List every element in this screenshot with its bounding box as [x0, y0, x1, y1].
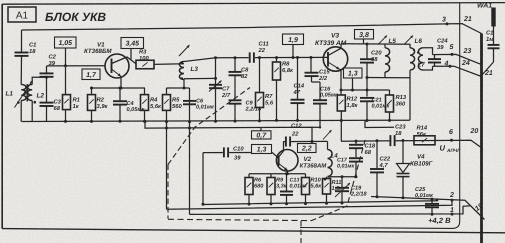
pin 4 label: [444, 61, 449, 68]
node R1 gnd dot: [64, 120, 67, 123]
label R4: [150, 98, 162, 110]
resistor R6: [245, 174, 253, 204]
node R13 gnd dot: [388, 119, 391, 122]
pin 6 label: [449, 129, 453, 136]
inductor L5: [385, 44, 390, 78]
label C11: [258, 41, 269, 54]
node C18 afc dot: [355, 140, 358, 143]
transistor V3 base lead: [324, 56, 329, 58]
transistor V2 collector lead: [279, 142, 284, 157]
label R8: [282, 61, 294, 74]
node R12 gnd dot: [340, 119, 343, 122]
resistor R5: [163, 88, 171, 209]
node V4 bottom dot: [402, 196, 405, 199]
capacitor C15: [305, 58, 321, 83]
contact 19 label: [474, 202, 485, 212]
capacitor C1 input: [15, 30, 29, 85]
antenna WA1 symbol: [491, 8, 495, 45]
capacitor C19 variable: [335, 177, 350, 203]
capacitor C7 trimmer: [209, 81, 222, 92]
wire pin4 line: [433, 66, 482, 76]
wire vertical C6 branch: [189, 88, 191, 214]
outer frame left border: [1, 4, 3, 229]
arrow L1 tuning: [15, 81, 33, 108]
inductor L2: [27, 84, 32, 121]
label C1 input: [29, 42, 36, 55]
capacitor C1 antenna: [482, 45, 500, 76]
wire pin1 line: [190, 206, 471, 215]
transistor V3 emitter lead: [328, 62, 341, 95]
wire top bus to pin 3: [22, 24, 482, 34]
resistor R2: [88, 88, 96, 121]
voltage box 3,8: [355, 30, 374, 40]
wire rail B stub right: [365, 121, 394, 128]
transistor V2 base lead: [272, 152, 279, 158]
capacitor C18: [349, 141, 363, 148]
pin 2 label: [449, 192, 454, 199]
pin 5 dot: [451, 53, 454, 56]
capacitor C16: [312, 82, 327, 127]
wire L3 bottom link: [167, 79, 185, 88]
transistor V1 emitter lead: [112, 69, 122, 88]
label R14: [417, 126, 428, 138]
wire 1,05 stub and R1 lead: [65, 48, 67, 95]
node C6 railB dot: [188, 120, 191, 129]
wire osc collector: [283, 140, 328, 142]
dot L6 polarity: [413, 49, 415, 51]
label V1: [84, 42, 112, 56]
label R11: [332, 180, 344, 192]
inductor L7: [418, 48, 432, 70]
node C7 top dot: [214, 56, 217, 59]
node rail1 to pin2 dot: [436, 198, 439, 201]
wire L2 top link: [32, 77, 46, 84]
node R12 top dot: [340, 89, 343, 92]
label C12: [291, 123, 302, 138]
resistor R10: [302, 174, 310, 204]
node C12 busB dot: [311, 140, 314, 143]
wire osc base: [203, 151, 272, 153]
node emitter dot: [120, 87, 123, 90]
outer frame top border: [2, 3, 505, 5]
label R9: [276, 178, 288, 190]
capacitor C24: [428, 55, 441, 67]
node C8 top dot: [234, 56, 237, 59]
voltage box 0,7: [252, 131, 272, 140]
cable bundle line: [480, 34, 483, 243]
outer frame bottom border: [2, 229, 505, 233]
capacitor C8: [229, 58, 242, 99]
label R10: [311, 178, 323, 190]
wire osc bottom rail 1: [203, 200, 437, 205]
transistor V1: [105, 54, 129, 78]
node R8 top dot: [275, 56, 278, 59]
voltage box 1,05: [55, 37, 77, 48]
wire mixer collector bus: [341, 43, 411, 46]
capacitor C23: [389, 135, 395, 146]
node C7 gnd dot: [214, 120, 217, 123]
node base-R1 dot: [64, 64, 67, 67]
label C3: [54, 99, 62, 112]
node 1,9 dot: [292, 56, 295, 59]
node C11 right dot: [258, 56, 261, 59]
contact 20 label: [470, 128, 479, 135]
voltage box 1,3 osc: [252, 145, 272, 154]
label C20: [371, 50, 382, 63]
dot L3 top: [181, 61, 183, 63]
label R3: [139, 49, 149, 62]
voltage box 3,45: [121, 38, 144, 49]
wire osc bottom rail 2: [167, 200, 453, 209]
node C4 gnd dot: [119, 120, 122, 123]
wire 0,7 stub: [260, 128, 262, 131]
label R12: [347, 96, 359, 109]
transistor V1 collector lead: [112, 57, 137, 64]
label L3: [191, 66, 199, 73]
wire 1,9 stub: [292, 45, 294, 58]
capacitor C6: [183, 101, 196, 104]
designator A1 box: [8, 7, 36, 22]
contact 24 label: [461, 60, 470, 67]
voltage box 1,7: [82, 69, 100, 80]
pin 2 dot: [451, 199, 454, 202]
label C25: [415, 187, 434, 199]
label L7: [418, 62, 426, 69]
label R13: [396, 94, 407, 107]
node R2 top dot: [90, 87, 93, 90]
wire R12 bottom: [340, 111, 342, 121]
capacitor C20: [360, 44, 374, 78]
node rail B jog dot: [144, 120, 147, 123]
wire V1 base: [47, 65, 106, 67]
label V4: [410, 154, 434, 168]
dot L2 polarity: [34, 101, 37, 104]
gang link dashed diagonal 2: [311, 137, 366, 221]
transistor V2 base bar: [278, 156, 280, 166]
label C16: [320, 87, 339, 99]
label C19: [350, 186, 367, 198]
wire R1 bottom: [65, 110, 67, 122]
label C9: [245, 101, 262, 113]
voltage box 2,2: [298, 144, 317, 153]
label C18: [365, 143, 376, 156]
node C22 top dot: [376, 139, 379, 142]
dot L7 polarity: [417, 51, 419, 53]
resistor R8: [273, 58, 281, 121]
label C15: [318, 69, 330, 82]
wire ground rail A: [22, 120, 411, 121]
capacitor C4: [113, 88, 127, 121]
node R8 gnd dot: [275, 119, 278, 122]
inductor L6: [410, 44, 415, 78]
node 1,3 dot: [351, 89, 354, 92]
gang link dashed drop: [300, 221, 302, 243]
node V4 top dot: [402, 139, 405, 142]
wire rail A to AFC vertical: [340, 121, 342, 142]
arrow L6 tuning: [404, 36, 413, 45]
wire RF mid bus: [184, 57, 324, 61]
arrow L3 tuning: [179, 45, 190, 56]
transistor V3 base bar: [327, 52, 329, 67]
label C7: [221, 86, 231, 99]
node R4 gnd dot: [143, 120, 146, 123]
capacitor C2: [40, 66, 54, 77]
gang link dashed bottom: [168, 219, 311, 220]
label R7: [265, 94, 274, 106]
title БЛОК УКВ: [45, 10, 106, 24]
label C21: [372, 98, 391, 110]
wire 3,45 stub: [130, 49, 132, 61]
label L5: [389, 38, 397, 45]
label C23: [395, 124, 406, 137]
resistor R7: [256, 58, 264, 121]
node C9 gnd dot: [234, 120, 237, 123]
contact 21b label: [484, 70, 493, 77]
varicap V4: [397, 141, 410, 198]
node C14 top dot: [296, 56, 299, 59]
label C1 antenna: [486, 30, 494, 43]
gang link dashed vertical: [167, 165, 169, 219]
gang link dashed diagonal 1: [168, 88, 250, 165]
wire L3 bottom bus: [184, 77, 216, 79]
arrow L5 tuning: [378, 36, 387, 45]
label R2: [97, 97, 109, 110]
inductor L4: [328, 141, 333, 176]
node tank row dots: [341, 175, 358, 178]
label L1: [6, 91, 14, 98]
capacitor C13: [280, 174, 293, 204]
wire osc emitter row: [249, 173, 306, 175]
voltage box 1,9: [283, 34, 304, 45]
dot L1 polarity: [17, 101, 20, 104]
node emitter bus dots: [285, 172, 289, 175]
resistor R14: [414, 136, 435, 145]
node C25 top dot: [431, 198, 434, 201]
pin 6 dot: [450, 139, 453, 142]
wire mixer tank bottom: [367, 77, 410, 79]
capacitor C22: [370, 141, 384, 198]
label C22: [379, 156, 391, 169]
contact 21 label: [463, 16, 472, 23]
node C14 gnd dot: [296, 119, 299, 122]
capacitor C21: [360, 78, 374, 121]
wire L6 ground drop: [409, 78, 411, 120]
inductor L3: [179, 62, 184, 80]
label C13: [290, 178, 307, 190]
capacitor C10: [223, 147, 229, 157]
resistor R4: [141, 88, 149, 121]
capacitor C14: [291, 58, 305, 121]
wire vertical C7 branch: [215, 58, 217, 121]
transistor V1 base bar: [111, 59, 113, 74]
antenna WA1 label: [477, 3, 492, 10]
capacitor C12: [285, 136, 291, 146]
label +4,2 V: [428, 216, 451, 225]
label C6: [196, 99, 215, 111]
node rail1 dots: [202, 202, 344, 206]
label C2: [49, 54, 57, 67]
capacitor C25: [425, 199, 439, 214]
node L2-C2-C3 dot: [45, 76, 48, 79]
label C17: [337, 158, 354, 170]
resistor R13: [386, 90, 394, 120]
node R7 gnd dot: [258, 119, 261, 122]
pin 3 dot: [446, 22, 449, 25]
label V3: [315, 33, 347, 47]
core L1 L2: [26, 84, 28, 102]
wire AFC line: [341, 140, 482, 148]
wire rail B: [145, 121, 312, 141]
dot L4 polarity: [324, 178, 327, 181]
resistor R1: [63, 95, 71, 110]
capacitor C17: [349, 149, 363, 177]
node C20 top dot: [366, 43, 369, 46]
label R1: [73, 98, 80, 110]
label U AFC: [440, 144, 462, 155]
node C21 top dot: [366, 89, 369, 92]
wire V3 emitter row: [341, 89, 390, 91]
wire pin5 line: [433, 54, 482, 64]
node C21 gnd dot: [366, 119, 369, 122]
wire osc tank node row: [328, 176, 357, 178]
resistor R3: [136, 60, 154, 69]
wire +4.2V pin2 line: [371, 197, 485, 220]
label V2: [300, 156, 328, 170]
capacitor C11: [249, 52, 255, 63]
resistor R12: [337, 95, 345, 111]
node R2 gnd dot: [90, 120, 93, 123]
capacitor C3: [40, 77, 54, 121]
wire 1,3 stub: [352, 78, 354, 90]
node R5 top dot: [183, 87, 186, 90]
wire 3,8 stub: [363, 39, 365, 44]
capacitor C9 variable: [229, 100, 242, 121]
label C24: [437, 38, 448, 51]
node C4 top dot: [119, 87, 122, 90]
node C15 top dot: [310, 56, 313, 59]
wire L3 bottom to C6: [184, 87, 190, 89]
node C25 bottom dot: [431, 213, 434, 216]
label R6: [254, 178, 264, 190]
label L2: [37, 93, 45, 100]
voltage box 1,3 mixer: [344, 68, 363, 78]
label C4: [127, 101, 146, 113]
pin 1 label: [450, 207, 454, 214]
node R5 railB dot: [165, 120, 168, 129]
transistor V3: [323, 47, 347, 71]
node C22 bottom dot: [376, 195, 379, 198]
arrow L4 tuning: [323, 130, 332, 140]
wire vertical osc base drop: [202, 153, 204, 205]
label C8: [241, 67, 249, 80]
wire R3 to L3: [154, 63, 184, 66]
node C20 bottom dot: [366, 76, 369, 79]
transistor V2: [276, 150, 298, 172]
node C16 busB dot: [319, 126, 321, 128]
pin 1 dot: [451, 213, 454, 216]
label R5: [172, 98, 182, 110]
label L4: [331, 153, 339, 160]
label C10 bottom: [234, 155, 241, 162]
label L6: [415, 38, 423, 45]
wire V1 emitter row: [92, 87, 146, 89]
transistor V3 collector lead: [328, 44, 341, 56]
transistor V2 emitter lead: [279, 164, 288, 174]
block screen edge: [300, 3, 460, 228]
label C14: [293, 83, 305, 96]
node L3 wire dot: [214, 77, 217, 80]
pin 3 label: [442, 17, 446, 24]
resistor R11: [323, 177, 331, 203]
resistor R9: [267, 174, 275, 204]
inductor L1: [21, 84, 26, 121]
contact 23 label: [463, 48, 472, 55]
pin 4 dot: [449, 65, 452, 68]
label C10 top: [233, 146, 244, 153]
pin 5 label: [450, 44, 454, 51]
dot L3 bottom: [181, 77, 183, 79]
